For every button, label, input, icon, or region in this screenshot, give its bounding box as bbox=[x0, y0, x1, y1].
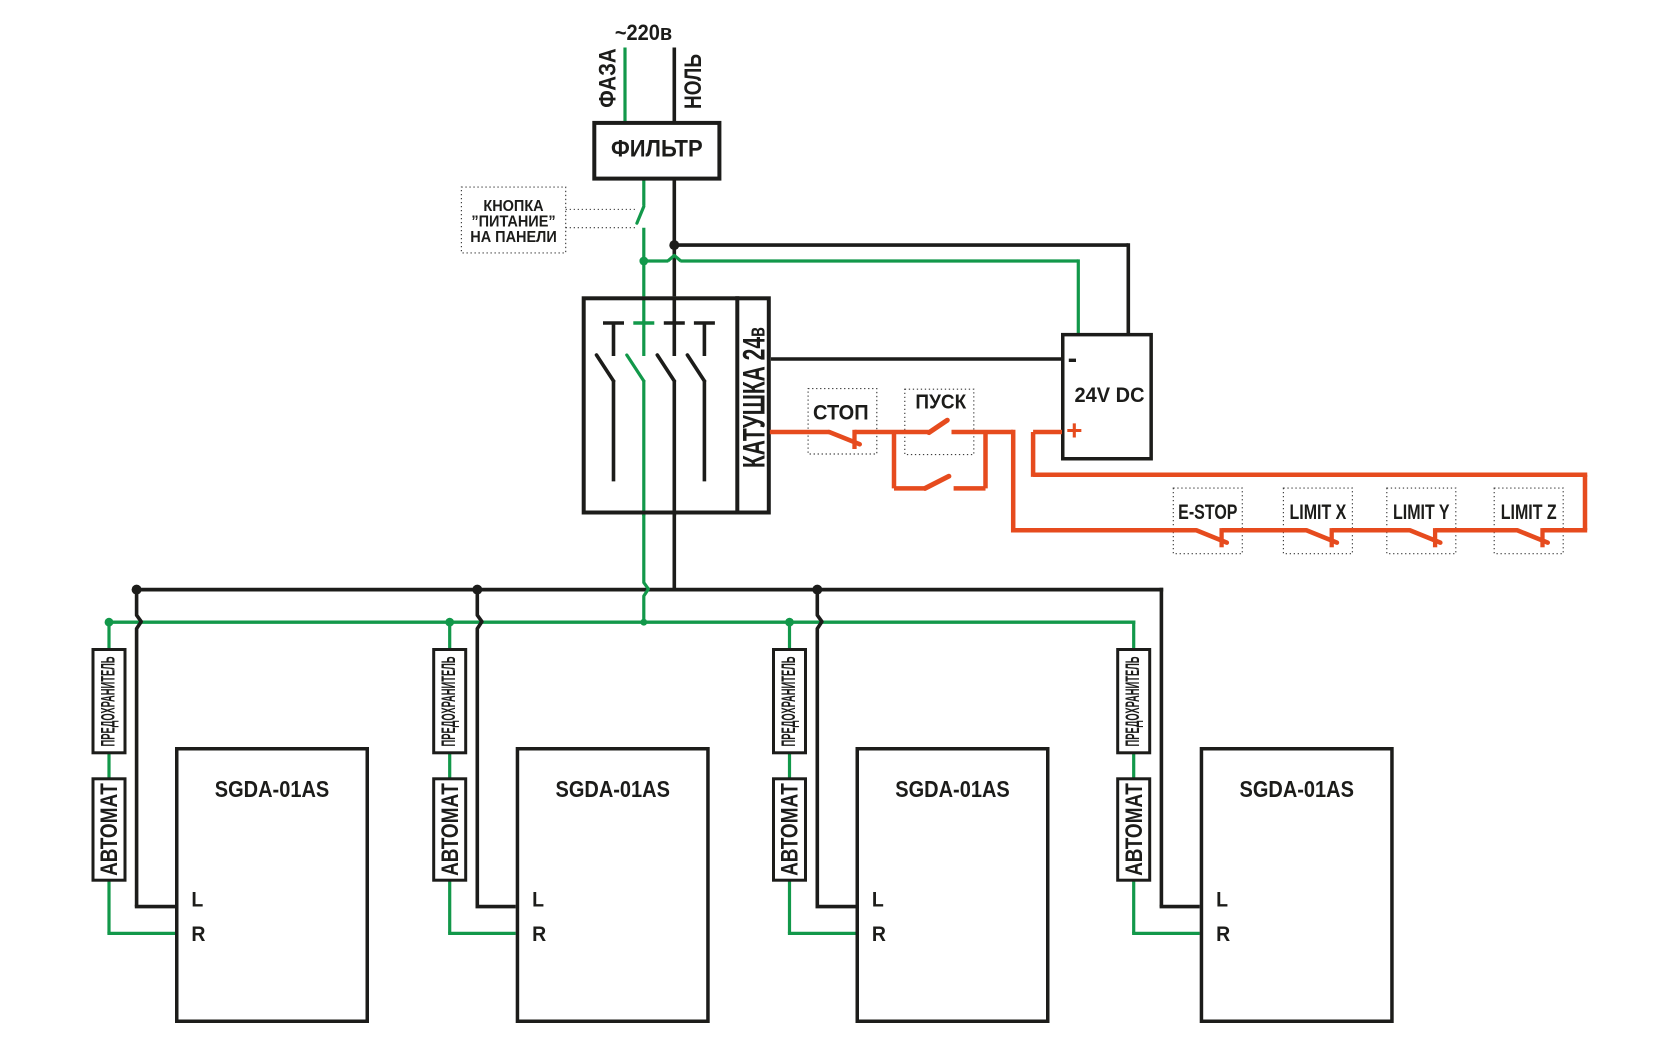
svg-text:ПРЕДОХРАНИТЕЛЬ: ПРЕДОХРАНИТЕЛЬ bbox=[1121, 656, 1143, 746]
svg-text:L: L bbox=[191, 888, 203, 912]
svg-text:СТОП: СТОП bbox=[813, 401, 869, 425]
svg-text:LIMIT X: LIMIT X bbox=[1289, 500, 1346, 524]
svg-text:ПРЕДОХРАНИТЕЛЬ: ПРЕДОХРАНИТЕЛЬ bbox=[437, 656, 459, 746]
svg-text:SGDA-01AS: SGDA-01AS bbox=[555, 776, 669, 803]
svg-text:SGDA-01AS: SGDA-01AS bbox=[1239, 776, 1353, 803]
svg-text:LIMIT Y: LIMIT Y bbox=[1393, 500, 1450, 524]
svg-text:ФИЛЬТР: ФИЛЬТР bbox=[611, 135, 703, 162]
svg-text:R: R bbox=[872, 922, 886, 946]
svg-text:R: R bbox=[1216, 922, 1230, 946]
svg-text:КАТУШКА 24в: КАТУШКА 24в bbox=[736, 327, 771, 468]
svg-text:ПРЕДОХРАНИТЕЛЬ: ПРЕДОХРАНИТЕЛЬ bbox=[777, 656, 799, 746]
svg-text:НА ПАНЕЛИ: НА ПАНЕЛИ bbox=[470, 228, 557, 246]
svg-text:АВТОМАТ: АВТОМАТ bbox=[1120, 783, 1148, 876]
svg-text:АВТОМАТ: АВТОМАТ bbox=[436, 783, 464, 876]
svg-text:LIMIT Z: LIMIT Z bbox=[1501, 500, 1557, 524]
svg-text:АВТОМАТ: АВТОМАТ bbox=[95, 783, 123, 876]
svg-text:ПРЕДОХРАНИТЕЛЬ: ПРЕДОХРАНИТЕЛЬ bbox=[97, 656, 119, 746]
svg-text:L: L bbox=[1216, 888, 1228, 912]
svg-text:SGDA-01AS: SGDA-01AS bbox=[895, 776, 1009, 803]
svg-text:~220в: ~220в bbox=[615, 21, 672, 45]
svg-text:ФАЗА: ФАЗА bbox=[594, 48, 621, 107]
svg-text:ПУСК: ПУСК bbox=[915, 391, 967, 414]
svg-text:R: R bbox=[191, 922, 205, 946]
svg-text:L: L bbox=[532, 888, 544, 912]
svg-text:НОЛЬ: НОЛЬ bbox=[680, 54, 707, 109]
svg-text:АВТОМАТ: АВТОМАТ bbox=[775, 783, 803, 876]
svg-text:+: + bbox=[1066, 415, 1082, 446]
svg-text:E-STOP: E-STOP bbox=[1178, 500, 1237, 524]
svg-text:R: R bbox=[532, 922, 546, 946]
svg-text:SGDA-01AS: SGDA-01AS bbox=[215, 776, 329, 803]
svg-text:24V DC: 24V DC bbox=[1074, 384, 1144, 408]
svg-text:L: L bbox=[872, 888, 884, 912]
